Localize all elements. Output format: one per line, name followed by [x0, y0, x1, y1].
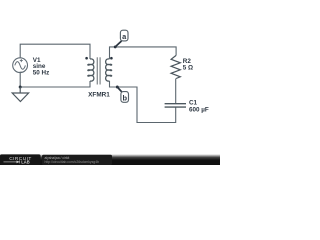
ground: [12, 87, 28, 102]
svg-text:LAB: LAB: [21, 160, 29, 165]
svg-text:XFMR1: XFMR1: [88, 91, 110, 98]
junction at ground: [19, 86, 22, 89]
primary winding: [88, 59, 94, 81]
node a: [114, 30, 128, 48]
resistor R2: [171, 55, 180, 78]
transformer core: [97, 57, 100, 84]
polarity dot primary: [85, 57, 88, 60]
secondary winding: [106, 59, 112, 81]
polarity dot secondary: [110, 57, 113, 60]
capacitor C1: [165, 104, 186, 107]
wire secondary top: [110, 47, 177, 59]
watermark url text: [42, 155, 112, 165]
resistor lead: [175, 79, 177, 104]
svg-text:50 Hz: 50 Hz: [33, 70, 49, 77]
svg-text:5 Ω: 5 Ω: [183, 65, 193, 72]
label R2 5 ohm: [183, 58, 193, 71]
svg-text:http://circuitlab.com/c26sdcmk: http://circuitlab.com/c26sdcmkysg4b: [45, 160, 100, 164]
transformer XFMR1: [88, 59, 112, 81]
watermark logo box: [0, 154, 41, 165]
svg-text:b: b: [122, 93, 127, 102]
label V1 sine 50 Hz: [33, 57, 49, 77]
label C1 600 uF: [189, 100, 209, 114]
wire primary top: [20, 44, 90, 59]
svg-text:600 µF: 600 µF: [189, 107, 209, 114]
node b: [116, 86, 129, 103]
wire secondary bottom: [110, 81, 176, 123]
svg-text:C1: C1: [189, 100, 198, 107]
wire primary bottom: [20, 73, 90, 88]
voltage source V1: [13, 58, 28, 73]
